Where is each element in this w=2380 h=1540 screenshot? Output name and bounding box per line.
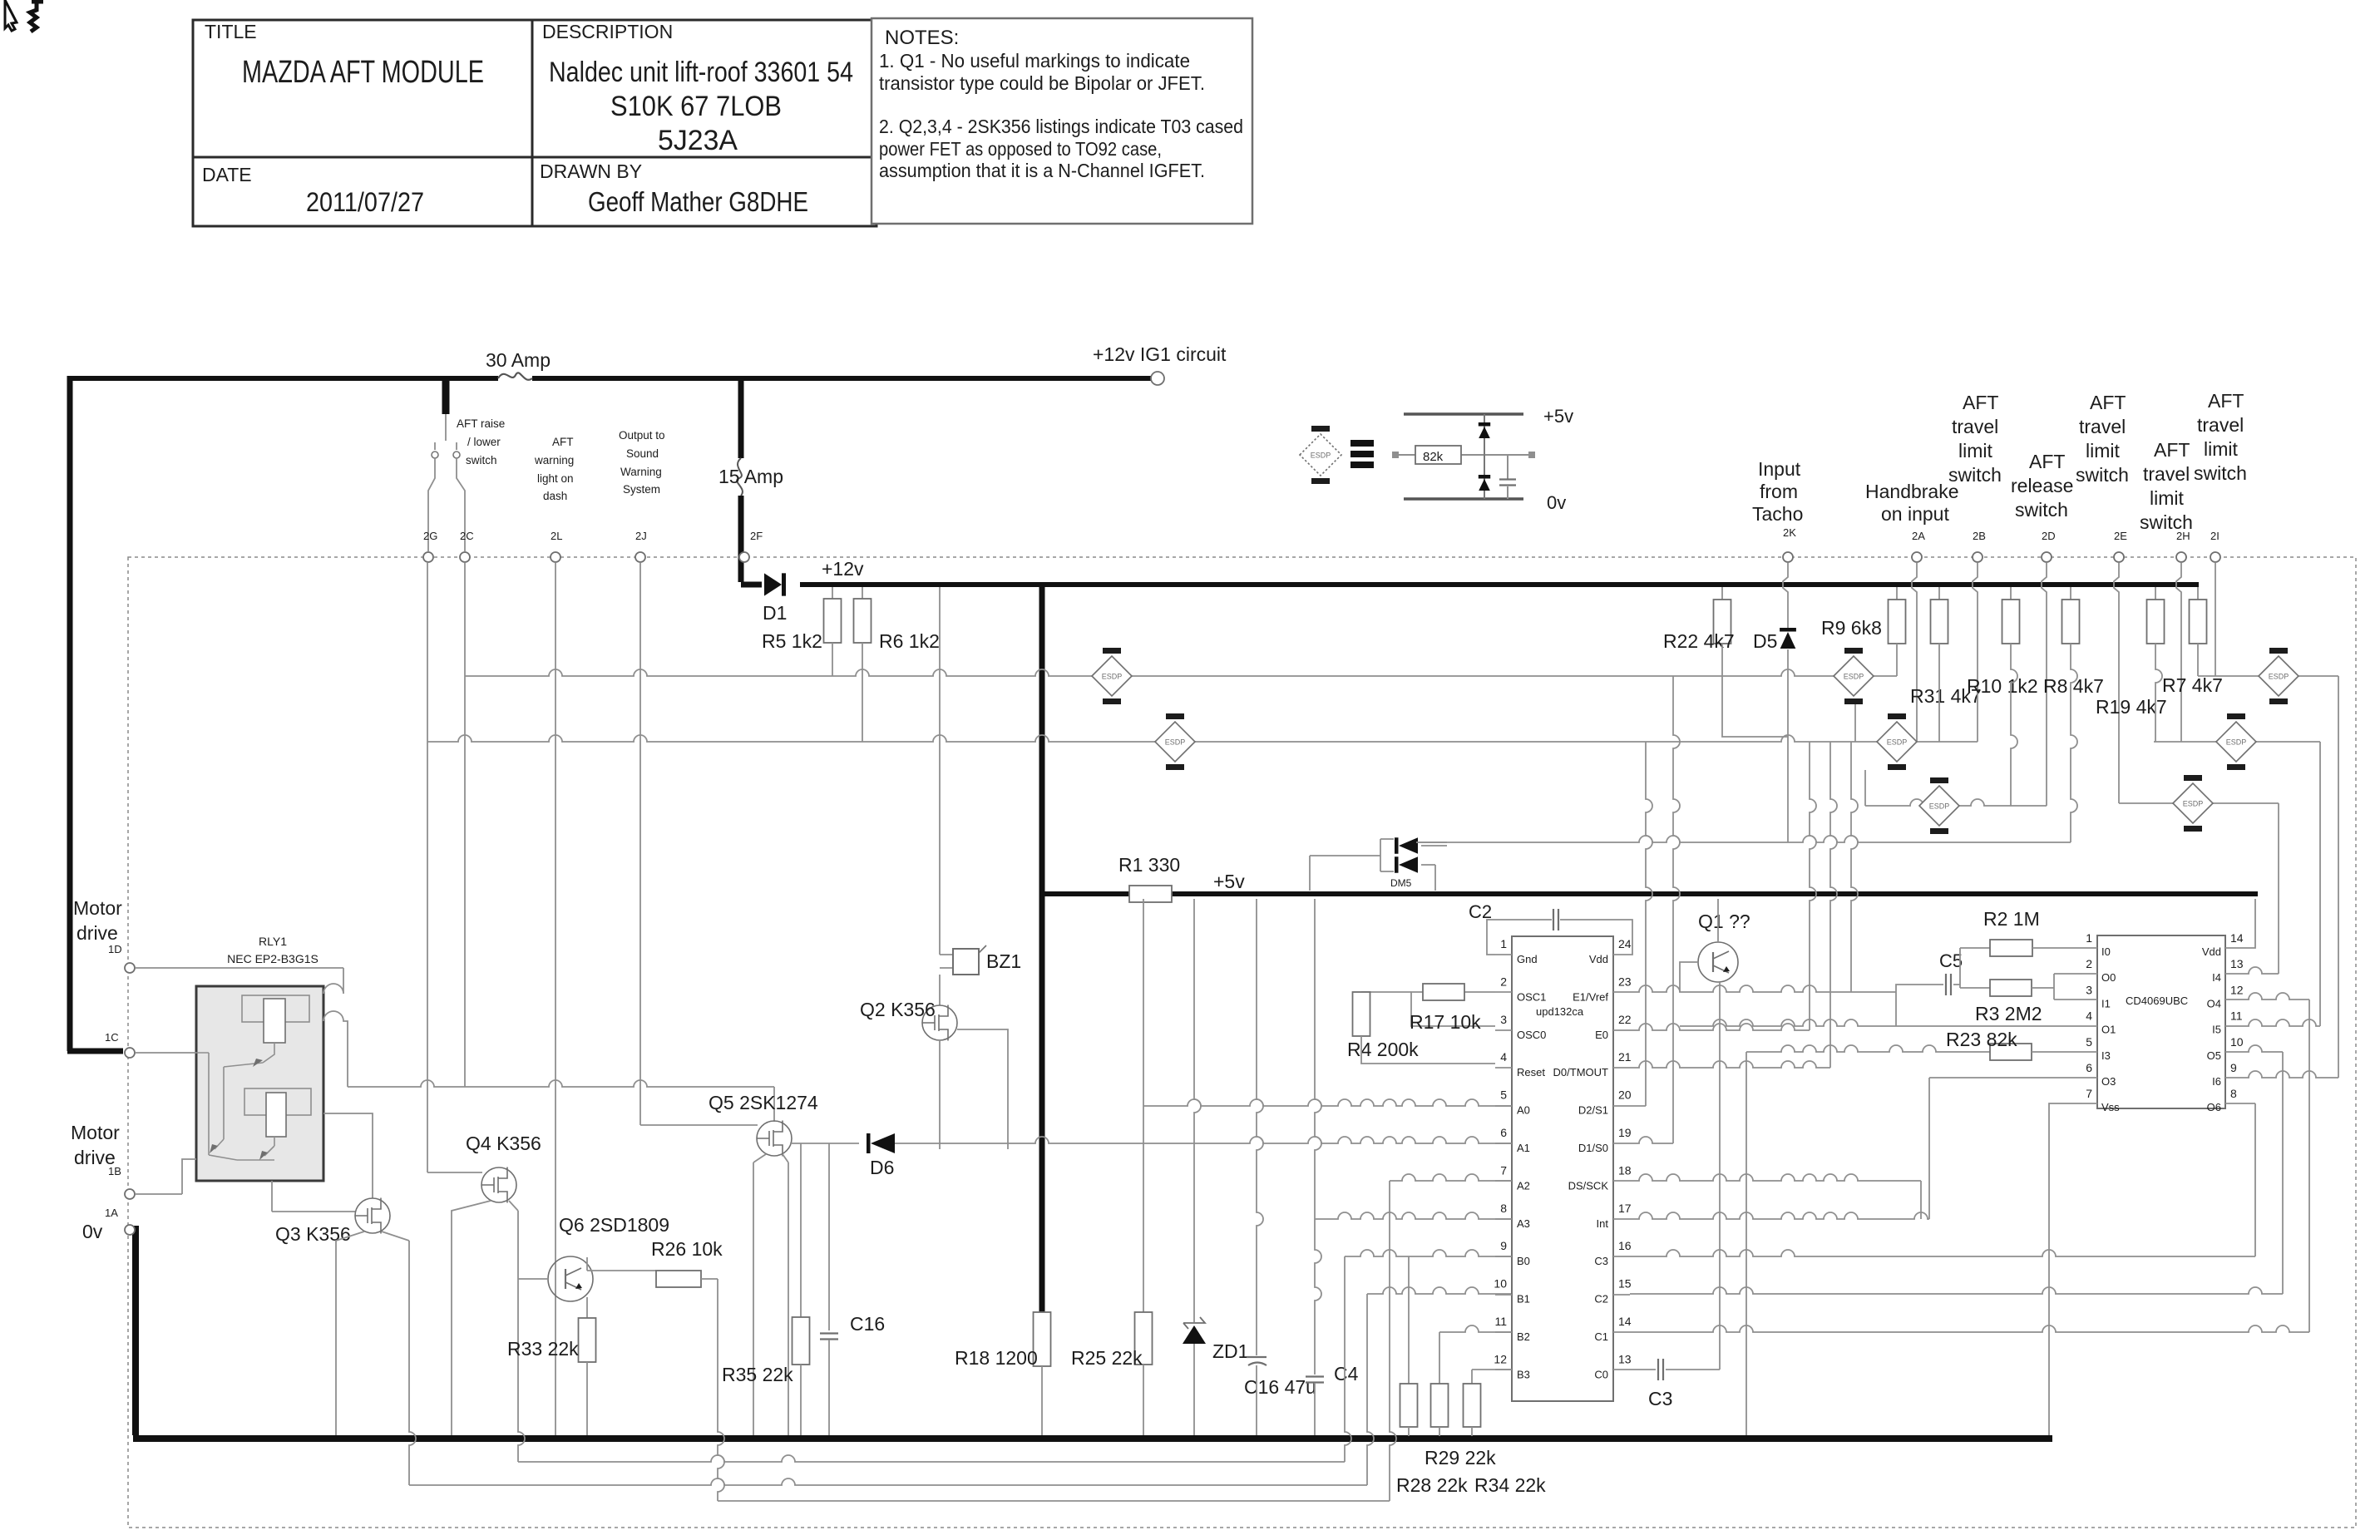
svg-text:switch: switch — [2076, 464, 2129, 486]
wire bus C right segment — [2119, 802, 2279, 804]
transistor Q5 2SK1274 — [757, 1121, 792, 1157]
ESD protector on bus C right — [2173, 775, 2213, 832]
pin 7 Vss of U2 — [2082, 1103, 2097, 1104]
legend capacitor — [1507, 455, 1508, 499]
terminal 1C — [125, 1048, 135, 1058]
wire 2C bottom to Q5 drain top — [348, 1080, 774, 1087]
svg-text:13: 13 — [2230, 957, 2244, 970]
svg-text:23: 23 — [1618, 975, 1632, 988]
svg-text:I3: I3 — [2101, 1049, 2111, 1062]
IC U1 upd132ca body — [1512, 936, 1613, 1401]
svg-text:NEC EP2-B3G1S: NEC EP2-B3G1S — [227, 952, 318, 965]
svg-text:A3: A3 — [1517, 1217, 1530, 1230]
svg-text:2B: 2B — [1973, 530, 1986, 542]
svg-text:2J: 2J — [635, 530, 647, 542]
svg-text:warning: warning — [534, 454, 574, 466]
wire 1A to relay — [136, 1159, 196, 1194]
svg-text:14: 14 — [1618, 1315, 1632, 1328]
resistor R17 10k — [1423, 984, 1464, 1000]
wire riser to A2 — [1390, 1181, 1396, 1501]
wire bus A right segment — [2198, 675, 2338, 677]
resistor R4 200k — [1353, 992, 1370, 1036]
wire relay contact out right mid to Q3 drain — [323, 1113, 373, 1198]
svg-text:travel: travel — [2079, 416, 2126, 437]
svg-text:1B: 1B — [108, 1165, 121, 1177]
wire R25 bottom — [1143, 1365, 1144, 1435]
svg-text:R3 2M2: R3 2M2 — [1975, 1003, 2042, 1024]
svg-text:R6 1k2: R6 1k2 — [879, 630, 940, 652]
svg-text:Warning: Warning — [620, 466, 662, 478]
fuse F2 15 Amp — [737, 458, 743, 496]
svg-text:4: 4 — [1500, 1050, 1507, 1064]
svg-text:MAZDA AFT MODULE: MAZDA AFT MODULE — [242, 55, 484, 90]
diode D5 — [1783, 563, 1788, 629]
diode D6 — [871, 1133, 895, 1153]
svg-text:S10K 67 7LOB: S10K 67 7LOB — [610, 91, 782, 122]
svg-text:2D: 2D — [2042, 530, 2056, 542]
pin 19 D1/S0 of U1 — [1613, 1143, 1630, 1144]
svg-text:2: 2 — [1500, 975, 1507, 988]
svg-text:2A: 2A — [1912, 530, 1925, 542]
svg-text:Motor: Motor — [71, 1122, 120, 1143]
legend 0v rail — [1404, 497, 1523, 501]
wire bus C — [1865, 799, 2047, 806]
pin 8 A3 of U1 — [1495, 1218, 1512, 1220]
wire 2G column — [427, 563, 428, 1172]
transistor Q3 K356 — [355, 1198, 390, 1234]
capacitor C2 — [1553, 909, 1558, 930]
wire switch pole right — [457, 458, 465, 551]
svg-text:ESDP: ESDP — [1165, 738, 1186, 747]
pin 17 Int of U1 — [1613, 1218, 1630, 1220]
svg-text:R9 6k8: R9 6k8 — [1821, 617, 1882, 639]
svg-text:switch: switch — [466, 454, 497, 466]
svg-text:11: 11 — [2230, 1009, 2243, 1023]
pin 6 O3 of U2 — [2082, 1077, 2097, 1078]
svg-text:3: 3 — [2086, 983, 2092, 996]
svg-text:R25 22k: R25 22k — [1071, 1347, 1143, 1369]
svg-text:1: 1 — [2086, 931, 2092, 945]
svg-text:5: 5 — [2086, 1035, 2092, 1049]
svg-text:D1/S0: D1/S0 — [1578, 1142, 1608, 1154]
terminal 2B — [1973, 552, 1983, 562]
wire thick 2F drop to +12v rail — [741, 496, 762, 585]
wire switch pole left — [428, 414, 457, 551]
wire Q6 collector to R26 — [587, 1270, 656, 1271]
svg-text:21: 21 — [1618, 1050, 1632, 1064]
svg-text:assumption that it is a N-Chan: assumption that it is a N-Channel IGFET. — [879, 160, 1205, 181]
wire A1 line D6 to upd pin6 — [895, 1137, 1512, 1143]
wire C2 net — [1630, 1287, 2283, 1294]
svg-text:2C: 2C — [460, 530, 474, 542]
wire R33 bottom to 0v rail — [586, 1362, 588, 1435]
wire E1 drop to O1 line — [1851, 742, 1858, 992]
relay coil 2 — [266, 1093, 286, 1137]
diode D1 — [764, 573, 782, 595]
wire I5 to bus B drop — [2240, 1019, 2320, 1026]
wire sub-rail C — [718, 1500, 1390, 1502]
wire R25 column from +5v — [1143, 899, 1144, 1106]
svg-text:drive: drive — [77, 922, 118, 944]
svg-text:RLY1: RLY1 — [259, 935, 287, 948]
resistor R1 330 — [1129, 886, 1172, 902]
svg-text:upd132ca: upd132ca — [1536, 1005, 1584, 1018]
svg-text:DM5: DM5 — [1390, 877, 1412, 889]
svg-text:2. Q2,3,4 - 2SK356 listings in: 2. Q2,3,4 - 2SK356 listings indicate T03… — [879, 116, 1243, 137]
svg-text:15 Amp: 15 Amp — [718, 466, 783, 487]
svg-text:0v: 0v — [1547, 492, 1566, 513]
wire R23 to pin5 — [2032, 1051, 2082, 1053]
wire DS/SCK net — [1630, 1174, 1921, 1181]
transistor Q1 ?? — [1698, 942, 1738, 982]
ESD protector on bus B mid — [1877, 713, 1917, 770]
wire R8 bottom to bus D — [2071, 644, 2077, 842]
wire B2 line — [1439, 1325, 1512, 1332]
svg-text:C16 47u: C16 47u — [1244, 1376, 1316, 1398]
svg-text:Q2 K356: Q2 K356 — [860, 999, 936, 1020]
svg-text:R2 1M: R2 1M — [1983, 908, 2040, 930]
pin 13 I4 of U2 — [2225, 973, 2240, 975]
wire O6 to C3 riser — [2240, 1103, 2255, 1104]
terminal 2H — [2176, 552, 2186, 562]
svg-text:BZ1: BZ1 — [986, 950, 1021, 972]
svg-text:switch: switch — [2194, 462, 2247, 484]
capacitor C16 47u — [1247, 1357, 1267, 1365]
svg-text:R10 1k2: R10 1k2 — [1967, 675, 2038, 697]
wire 2C column — [464, 563, 466, 1087]
svg-text:19: 19 — [1618, 1126, 1632, 1139]
terminal 2C — [460, 552, 470, 562]
wire ZD1 bottom — [1193, 1344, 1195, 1435]
svg-text:Tacho: Tacho — [1752, 503, 1803, 525]
svg-text:2I: 2I — [2210, 530, 2220, 542]
wire Q3 legs — [336, 1232, 364, 1435]
wire Int net — [1630, 1212, 1929, 1219]
wire I3 net from R23 — [1746, 1045, 1990, 1052]
svg-text:Sound: Sound — [626, 447, 659, 460]
svg-text:5: 5 — [1500, 1088, 1507, 1102]
wire R2 to pin1 — [2032, 947, 2082, 949]
svg-text:E0: E0 — [1595, 1029, 1608, 1041]
wire R26 right down to sub-rail C — [701, 1278, 718, 1280]
ESD protector on bus A left — [1092, 648, 1132, 704]
title block vertical divider — [531, 20, 534, 226]
pin 6 A1 of U1 — [1495, 1143, 1512, 1144]
wire 0v thick rail — [133, 1226, 2052, 1439]
svg-text:24: 24 — [1618, 937, 1632, 950]
svg-text:1A: 1A — [105, 1207, 118, 1219]
wire R8 top stub — [2070, 587, 2071, 600]
wire R35 column — [800, 1143, 802, 1317]
svg-text:AFT: AFT — [1963, 392, 1998, 413]
svg-text:D2/S1: D2/S1 — [1578, 1104, 1608, 1117]
wire R6 bottom to bus B — [862, 643, 863, 742]
ESD protector on bus B right — [2216, 713, 2256, 770]
svg-text:2G: 2G — [423, 530, 437, 542]
resistor R23 82k — [1990, 1044, 2032, 1060]
resistor R7 4k7 — [2190, 600, 2207, 644]
wire D1/S0 net riser — [1673, 676, 1680, 1143]
terminal 2G — [423, 552, 433, 562]
pin 24 Vdd of U1 — [1613, 954, 1630, 955]
wire bus B — [427, 735, 1978, 742]
legend wire with 82k resistor — [1395, 454, 1530, 456]
pin 23 E1/Vref of U1 — [1613, 991, 1630, 993]
svg-text:6: 6 — [2086, 1061, 2092, 1074]
svg-text:power FET as opposed to TO92 c: power FET as opposed to TO92 case, — [879, 138, 1162, 160]
svg-text:Vss: Vss — [2101, 1101, 2120, 1113]
wire OSC1 to R17 — [1411, 992, 1495, 1026]
svg-text:/ lower: / lower — [467, 436, 501, 448]
svg-text:light on: light on — [537, 472, 574, 485]
resistor R5 1k2 — [824, 599, 842, 643]
diode DM5 lower — [1399, 856, 1418, 873]
wire O5 to C2 riser — [2240, 1045, 2283, 1052]
wire R7 top stub — [2197, 587, 2199, 600]
svg-text:22: 22 — [1618, 1013, 1632, 1026]
pin 1 Gnd of U1 — [1495, 954, 1512, 955]
resistor R2 1M — [1990, 940, 2032, 956]
svg-text:3: 3 — [1500, 1013, 1507, 1026]
capacitor C4 — [1306, 1377, 1324, 1383]
buzzer BZ1 — [940, 955, 953, 968]
wire C16 bottom — [828, 1340, 830, 1435]
wire R23 to 0v drop — [1745, 1052, 1747, 1435]
svg-text:NOTES:: NOTES: — [885, 27, 959, 49]
pin 1 I0 of U2 — [2082, 947, 2097, 949]
svg-text:2H: 2H — [2176, 530, 2190, 542]
terminal +12v IG1 circuit — [1151, 372, 1164, 385]
svg-text:4: 4 — [2086, 1009, 2092, 1023]
svg-text:Motor: Motor — [73, 897, 122, 919]
svg-text:2E: 2E — [2114, 530, 2127, 542]
wire D0/TMOUT net — [1830, 742, 1837, 1068]
wire E0 net — [1810, 742, 1816, 1030]
svg-text:Vdd: Vdd — [2202, 945, 2221, 958]
svg-text:transistor type could be Bipol: transistor type could be Bipolar or JFET… — [879, 72, 1205, 94]
svg-text:18: 18 — [1618, 1163, 1632, 1177]
svg-text:5J23A: 5J23A — [658, 125, 738, 156]
svg-text:R22 4k7: R22 4k7 — [1663, 630, 1735, 652]
svg-text:C16: C16 — [850, 1313, 885, 1335]
ESD protector on bus B left — [1155, 713, 1195, 770]
svg-text:AFT: AFT — [552, 436, 574, 448]
pin 22 E0 of U1 — [1613, 1029, 1630, 1031]
legend clamp diode to 0v — [1479, 479, 1490, 491]
svg-text:O5: O5 — [2207, 1049, 2221, 1062]
svg-text:I6: I6 — [2212, 1075, 2221, 1088]
svg-text:O4: O4 — [2207, 997, 2221, 1009]
transistor Q4 K356 — [481, 1167, 516, 1203]
svg-text:C4: C4 — [1334, 1363, 1359, 1385]
pin 14 C1 of U1 — [1613, 1331, 1630, 1333]
resistor R26 10k — [656, 1271, 701, 1287]
resistor R31 4k7 — [1931, 600, 1948, 644]
svg-text:1. Q1 - No useful markings to: 1. Q1 - No useful markings to indicate — [879, 50, 1190, 72]
pin 16 C3 of U1 — [1613, 1256, 1630, 1257]
pin 2 OSC1 of U1 — [1495, 991, 1512, 993]
svg-text:O3: O3 — [2101, 1075, 2116, 1088]
svg-text:Q3 K356: Q3 K356 — [275, 1223, 351, 1245]
svg-text:C3: C3 — [1648, 1388, 1672, 1409]
svg-text:C2: C2 — [1469, 901, 1492, 922]
wire Q4 legs — [452, 1201, 491, 1435]
pin 7 A2 of U1 — [1495, 1180, 1512, 1182]
wire I4 to bus C drop — [2240, 967, 2279, 974]
wire R18 bottom — [1041, 1366, 1043, 1435]
svg-text:O1: O1 — [2101, 1024, 2116, 1036]
wire R5 bottom to bus A — [832, 643, 833, 676]
svg-text:ESDP: ESDP — [1929, 802, 1950, 811]
wire B3 line — [1472, 1369, 1512, 1370]
ESD protector on bus C mid — [1919, 777, 1959, 834]
wire C3 net — [1630, 1250, 2255, 1256]
svg-text:C3: C3 — [1594, 1255, 1608, 1267]
svg-text:+5v: +5v — [1543, 406, 1573, 427]
svg-text:+12v: +12v — [822, 558, 864, 580]
resistor R28 22k — [1400, 1384, 1418, 1427]
svg-text:17: 17 — [1618, 1202, 1632, 1215]
terminal 2J — [635, 552, 645, 562]
svg-text:0v: 0v — [82, 1221, 103, 1242]
wire thick drop to 15 Amp fuse — [738, 376, 744, 458]
wire A0 line to upd pin5 — [1143, 1099, 1512, 1106]
pin 14 Vdd of U2 — [2225, 947, 2240, 949]
svg-text:14: 14 — [2230, 931, 2244, 945]
wire I6 to bus A drop — [2240, 1071, 2338, 1078]
wire R31 bottom to bus B — [1938, 644, 1940, 742]
pin 11 I5 of U2 — [2225, 1025, 2240, 1027]
svg-text:release: release — [2011, 475, 2073, 496]
pin 21 D0/TMOUT of U1 — [1613, 1067, 1630, 1069]
wire sub-rail A — [518, 1455, 1345, 1462]
svg-text:Vdd: Vdd — [1589, 953, 1608, 965]
terminal 2A — [1912, 552, 1922, 562]
wire left thick feed down to 1C — [67, 376, 123, 1051]
svg-text:R34 22k: R34 22k — [1474, 1474, 1546, 1496]
terminal 0v — [125, 1225, 135, 1235]
svg-text:AFT: AFT — [2029, 451, 2065, 472]
wire R35 bottom — [800, 1365, 802, 1435]
title block horizontal divider — [193, 156, 876, 159]
wire Vdd to +5v rail end — [2240, 899, 2255, 948]
wire diamond chain link 2 — [1864, 770, 1866, 806]
svg-text:C1: C1 — [1594, 1330, 1608, 1343]
svg-text:12: 12 — [1494, 1352, 1507, 1365]
svg-text:OSC1: OSC1 — [1517, 990, 1546, 1003]
relay internal contact wiring — [196, 1043, 274, 1160]
wire O3 to Int route — [1929, 1077, 2082, 1078]
svg-text:limit: limit — [2086, 440, 2120, 462]
pin 2 O0 of U2 — [2082, 973, 2097, 975]
wire bus B right segment — [2154, 741, 2320, 743]
wire BZ1 to Q2 — [939, 975, 941, 1005]
svg-text:ZD1: ZD1 — [1212, 1340, 1248, 1362]
wire +12v rail inside module — [800, 582, 2199, 587]
wire C16 column — [828, 1143, 830, 1330]
transistor Q6 2SD1809 — [548, 1256, 593, 1301]
terminal 2F — [739, 552, 749, 562]
legend ESDP symbol — [1300, 426, 1341, 484]
svg-text:82k: 82k — [1423, 450, 1444, 464]
wire 2H column through rail — [2176, 563, 2181, 742]
svg-text:Geoff Mather G8DHE: Geoff Mather G8DHE — [588, 186, 808, 217]
svg-text:13: 13 — [1618, 1352, 1632, 1365]
svg-text:DATE: DATE — [202, 164, 252, 185]
relay RLY1 body — [196, 986, 323, 1181]
wire diamond chain link 1 — [1854, 704, 1856, 742]
wire +12v rail to BZ1 — [939, 587, 941, 955]
wire Q2 drain right down — [957, 1029, 1008, 1149]
svg-text:I1: I1 — [2101, 997, 2111, 1009]
wire R29 column — [1439, 1332, 1440, 1384]
wire E1/Vref net — [1630, 985, 1896, 992]
svg-text:7: 7 — [1500, 1163, 1507, 1177]
svg-text:6: 6 — [1500, 1126, 1507, 1139]
wire D2/S1 net riser — [1646, 742, 1652, 1106]
svg-text:ESDP: ESDP — [1311, 452, 1331, 460]
zener ZD1 — [1183, 1317, 1205, 1329]
svg-text:A2: A2 — [1517, 1179, 1530, 1192]
capacitor C3 — [1658, 1359, 1663, 1380]
svg-text:limit: limit — [2204, 438, 2238, 460]
terminal 2E — [2114, 552, 2124, 562]
wire R31 top stub — [1938, 587, 1940, 600]
wire C0 net to C3 capacitor — [1630, 1369, 1656, 1370]
svg-text:12: 12 — [2230, 983, 2244, 996]
wire R7 bottom — [2197, 644, 2199, 676]
pin 5 A0 of U1 — [1495, 1105, 1512, 1107]
terminal 1A — [125, 1189, 135, 1199]
pin 10 B1 of U1 — [1495, 1294, 1512, 1296]
pin 12 B3 of U1 — [1495, 1369, 1512, 1370]
pin 9 B0 of U1 — [1495, 1256, 1512, 1257]
wire Vss to 0v rail — [2049, 1103, 2082, 1435]
pin 4 O1 of U2 — [2082, 1025, 2097, 1027]
svg-text:R29 22k: R29 22k — [1425, 1447, 1496, 1468]
wire Q6 base stub — [518, 1278, 548, 1280]
wire +12v feed top rail — [70, 376, 1151, 381]
resistor R25 22k — [1135, 1312, 1153, 1365]
resistor R19 4k7 — [2147, 600, 2165, 644]
svg-text:I5: I5 — [2212, 1024, 2221, 1036]
wire R10 bottom to bus C — [2011, 644, 2017, 806]
svg-text:O0: O0 — [2101, 971, 2116, 984]
notes box — [872, 18, 1252, 224]
svg-text:DRAWN BY: DRAWN BY — [540, 160, 642, 182]
wire riser to B1 — [1367, 1294, 1374, 1485]
svg-text:2F: 2F — [750, 530, 763, 542]
svg-text:limit: limit — [1958, 440, 1992, 462]
svg-text:ESDP: ESDP — [1102, 673, 1123, 681]
svg-text:B2: B2 — [1517, 1330, 1530, 1343]
svg-text:11: 11 — [1494, 1315, 1507, 1328]
pin 13 C0 of U1 — [1613, 1369, 1630, 1370]
svg-text:ESDP: ESDP — [2183, 800, 2204, 808]
wire C16 47u bottom — [1256, 1365, 1257, 1435]
svg-text:D0/TMOUT: D0/TMOUT — [1553, 1066, 1609, 1078]
svg-text:CD4069UBC: CD4069UBC — [2126, 995, 2188, 1007]
svg-text:DESCRIPTION: DESCRIPTION — [542, 21, 673, 42]
wire R4 bottom to Reset — [1361, 1036, 1495, 1064]
svg-text:Naldec unit lift-roof 33601 54: Naldec unit lift-roof 33601 54 — [549, 57, 853, 88]
pin 9 I6 of U2 — [2225, 1077, 2240, 1078]
pin 10 O5 of U2 — [2225, 1051, 2240, 1053]
svg-text:R17 10k: R17 10k — [1410, 1011, 1481, 1033]
capacitor C16 — [820, 1334, 838, 1340]
svg-text:R33 22k: R33 22k — [507, 1338, 579, 1360]
svg-text:Int: Int — [1597, 1217, 1609, 1230]
